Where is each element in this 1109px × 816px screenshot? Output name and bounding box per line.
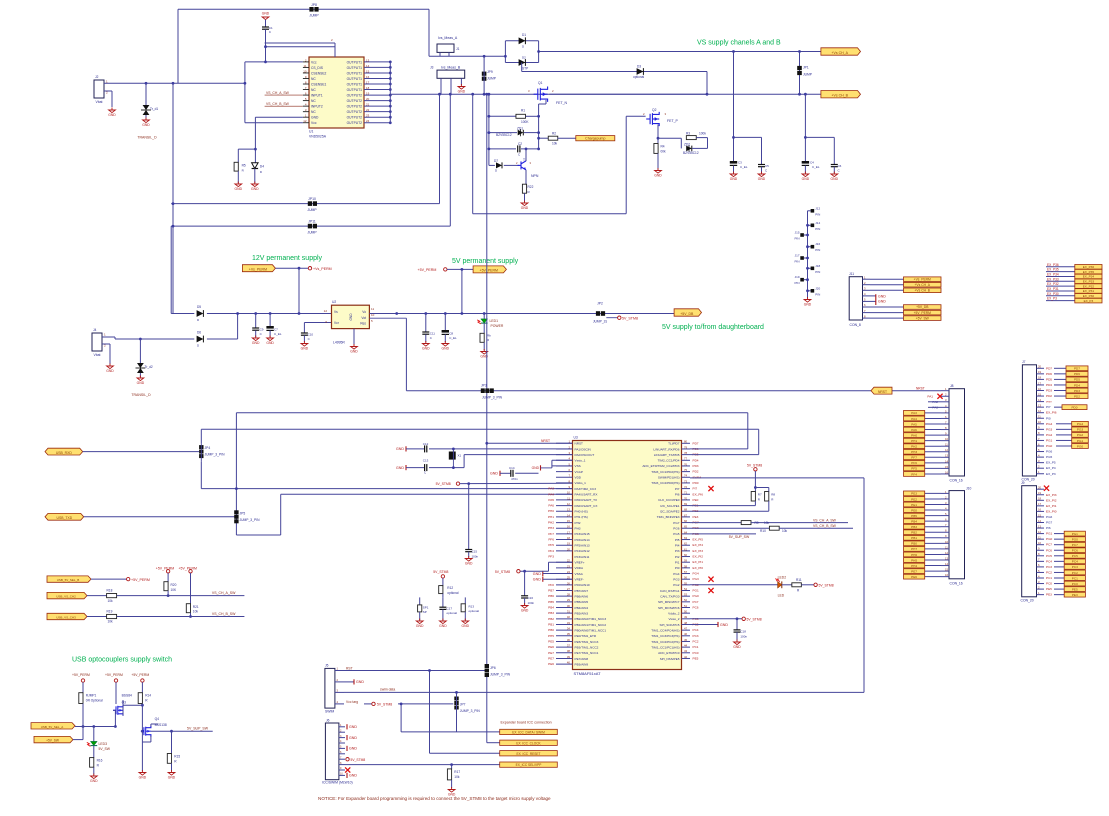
svg-text:EX_P30: EX_P30: [1083, 294, 1095, 298]
svg-text:PC3: PC3: [1046, 565, 1052, 569]
svg-text:EX_PI1: EX_PI1: [1046, 504, 1057, 508]
svg-text:OUTPUT1: OUTPUT1: [347, 82, 363, 86]
svg-text:48: 48: [684, 621, 688, 625]
svg-text:+5V_DB: +5V_DB: [680, 312, 694, 316]
svg-text:SPI_MISO/PC7: SPI_MISO/PC7: [658, 600, 680, 604]
svg-text:PIN: PIN: [815, 270, 820, 274]
svg-text:PB6/AIN6: PB6/AIN6: [575, 594, 589, 598]
svg-text:C14: C14: [509, 466, 515, 470]
svg-text:C10: C10: [308, 333, 314, 337]
svg-text:C18: C18: [740, 629, 746, 633]
svg-text:TLI/PD7: TLI/PD7: [668, 442, 680, 446]
svg-text:+Vs_PERM: +Vs_PERM: [249, 268, 267, 272]
svg-text:56: 56: [684, 576, 688, 580]
svg-text:VS_CH_A_SW: VS_CH_A_SW: [266, 91, 290, 95]
svg-text:GND: GND: [349, 736, 357, 740]
svg-text:NOTICE: For Expander board p: NOTICE: For Expander board programming i…: [318, 796, 551, 801]
svg-text:VS_CH_B_SW: VS_CH_B_SW: [266, 102, 290, 106]
svg-text:PE6: PE6: [911, 575, 917, 579]
svg-text:16: 16: [945, 573, 948, 577]
svg-text:PF7: PF7: [548, 532, 554, 536]
svg-text:+5V_PERM: +5V_PERM: [418, 268, 437, 272]
svg-text:12: 12: [567, 502, 571, 506]
svg-text:35: 35: [567, 632, 571, 636]
svg-text:PB2: PB2: [911, 531, 917, 535]
svg-text:C_EL: C_EL: [449, 336, 457, 340]
svg-text:+5V_PERM: +5V_PERM: [156, 567, 174, 571]
svg-text:GND: GND: [349, 313, 353, 321]
svg-text:PA4: PA4: [548, 492, 554, 496]
svg-text:CAN_RX/PG1: CAN_RX/PG1: [660, 589, 680, 593]
svg-text:PA5: PA5: [548, 498, 554, 502]
svg-text:23: 23: [366, 114, 370, 118]
svg-text:J18: J18: [815, 264, 820, 268]
svg-text:Ivs_Meas_A: Ivs_Meas_A: [438, 36, 458, 40]
svg-text:USB_VS_CH2: USB_VS_CH2: [56, 595, 76, 599]
svg-text:J10: J10: [966, 487, 971, 491]
svg-text:EX_P36: EX_P36: [1083, 265, 1095, 269]
svg-text:51: 51: [684, 604, 688, 608]
svg-text:D2: D2: [522, 56, 526, 60]
svg-text:PA1: PA1: [927, 394, 933, 398]
svg-text:PC2: PC2: [1072, 571, 1078, 575]
svg-text:5V_STM8: 5V_STM8: [747, 463, 762, 467]
svg-text:PB6: PB6: [548, 594, 554, 598]
svg-text:TIM3_CC2/PD0(HS): TIM3_CC2/PD0(HS): [651, 481, 679, 485]
svg-text:J15: J15: [795, 231, 800, 235]
svg-text:R17: R17: [454, 770, 460, 774]
svg-text:Vot: Vot: [361, 316, 366, 320]
svg-text:+5V_DB: +5V_DB: [916, 305, 929, 309]
svg-text:EX_P33: EX_P33: [1083, 279, 1095, 283]
svg-text:PC4: PC4: [693, 628, 699, 632]
svg-text:5V supply to/from daughterboar: 5V supply to/from daughterboard: [662, 324, 764, 331]
svg-text:J20: J20: [815, 286, 820, 290]
svg-text:Q1: Q1: [538, 81, 543, 85]
svg-text:RJMP1: RJMP1: [86, 693, 97, 697]
svg-text:PC2: PC2: [693, 639, 699, 643]
svg-text:PG1: PG1: [693, 589, 699, 593]
svg-text:EX_P3: EX_P3: [1046, 472, 1056, 476]
svg-text:PIN: PIN: [794, 281, 799, 285]
svg-text:PE1: PE1: [911, 503, 917, 507]
svg-text:PE0/TIM1_ETR: PE0/TIM1_ETR: [575, 634, 597, 638]
svg-text:JP2: JP2: [597, 302, 603, 306]
svg-text:JUMP_3_PIN: JUMP_3_PIN: [460, 709, 481, 713]
svg-text:PI6: PI6: [1046, 526, 1051, 530]
svg-text:10k: 10k: [108, 599, 114, 603]
svg-text:12: 12: [945, 551, 948, 555]
svg-text:R15: R15: [174, 755, 180, 759]
svg-text:PE5: PE5: [548, 639, 554, 643]
svg-text:USB_TXD: USB_TXD: [57, 516, 73, 520]
svg-text:78: 78: [684, 451, 688, 455]
svg-text:CON_8: CON_8: [850, 323, 861, 327]
svg-text:64: 64: [684, 530, 688, 534]
svg-text:C_EL: C_EL: [812, 165, 820, 169]
svg-text:GND: GND: [349, 774, 357, 778]
svg-text:20: 20: [567, 547, 571, 551]
svg-text:PB0: PB0: [911, 542, 917, 546]
svg-text:10: 10: [1038, 420, 1041, 424]
svg-text:PE0: PE0: [693, 498, 699, 502]
svg-text:GND: GND: [490, 472, 498, 476]
svg-text:+Vs CH_B: +Vs CH_B: [831, 94, 848, 98]
svg-text:57: 57: [684, 570, 688, 574]
svg-text:PC1: PC1: [1046, 576, 1052, 580]
svg-text:5V_SUP_SW: 5V_SUP_SW: [729, 535, 750, 539]
svg-text:GND: GND: [349, 747, 357, 751]
svg-text:10: 10: [303, 69, 307, 73]
svg-text:17: 17: [1038, 502, 1041, 506]
svg-text:29: 29: [567, 598, 571, 602]
svg-text:JP1: JP1: [803, 66, 809, 70]
svg-text:JP4: JP4: [205, 446, 211, 450]
svg-text:PA3: PA3: [911, 411, 917, 415]
svg-text:OUTPUT2: OUTPUT2: [347, 99, 363, 103]
svg-text:C8: C8: [449, 332, 453, 336]
svg-text:TIM1_CC1/PC1(HS): TIM1_CC1/PC1(HS): [651, 645, 679, 649]
svg-text:PE5: PE5: [693, 656, 699, 660]
svg-text:PF5: PF5: [911, 467, 917, 471]
svg-text:21: 21: [366, 103, 370, 107]
svg-text:JP3: JP3: [481, 384, 487, 388]
svg-text:J17: J17: [795, 254, 800, 258]
svg-text:PH3: PH3: [911, 450, 917, 454]
svg-text:VS_CH_B_SW: VS_CH_B_SW: [212, 612, 236, 616]
svg-text:EX_P4: EX_P4: [1046, 466, 1056, 470]
svg-text:VS_CH_A_SW: VS_CH_A_SW: [212, 591, 236, 595]
svg-text:PD2: PD2: [693, 470, 699, 474]
svg-text:PE7/TIM1_NCC1: PE7/TIM1_NCC1: [575, 651, 599, 655]
svg-text:PC0: PC0: [693, 651, 699, 655]
svg-text:11: 11: [303, 64, 306, 68]
svg-text:14: 14: [567, 513, 571, 517]
svg-text:16: 16: [366, 75, 370, 79]
svg-text:JP8: JP8: [311, 3, 317, 7]
svg-text:EX_PI6: EX_PI6: [1046, 411, 1057, 415]
svg-text:J1: J1: [456, 47, 460, 51]
svg-text:PB4: PB4: [548, 605, 554, 609]
svg-text:PIN: PIN: [794, 237, 799, 241]
svg-text:C4: C4: [810, 161, 814, 165]
svg-text:Expander board ICC connection: Expander board ICC connection: [501, 720, 552, 724]
svg-text:PG1: PG1: [1077, 439, 1083, 443]
svg-text:Vddio_1: Vddio_1: [575, 481, 587, 485]
svg-text:PE7/AIN8: PE7/AIN8: [575, 657, 589, 661]
svg-text:PD4: PD4: [693, 458, 699, 462]
svg-text:PI1: PI1: [675, 561, 680, 565]
svg-text:20: 20: [1038, 486, 1041, 490]
svg-text:37: 37: [567, 644, 571, 648]
svg-text:PH1 (HS): PH1 (HS): [575, 515, 588, 519]
svg-text:GND: GND: [654, 174, 662, 178]
svg-text:19: 19: [1038, 370, 1041, 374]
svg-text:43: 43: [684, 649, 688, 653]
svg-text:J11: J11: [849, 272, 854, 276]
svg-text:13: 13: [1038, 524, 1041, 528]
svg-text:FET_P: FET_P: [667, 119, 679, 123]
svg-text:15: 15: [945, 465, 948, 469]
svg-text:JP10: JP10: [308, 197, 316, 201]
svg-text:TIM2_CC1/PD4: TIM2_CC1/PD4: [658, 459, 680, 463]
svg-text:PE5: PE5: [1046, 587, 1052, 591]
svg-text:VDDA: VDDA: [575, 566, 585, 570]
svg-text:STP: STP: [522, 67, 528, 71]
svg-text:PI3: PI3: [675, 549, 680, 553]
svg-text:PG6: PG6: [1046, 450, 1052, 454]
svg-text:PG4: PG4: [693, 572, 699, 576]
svg-text:+5V_SW: +5V_SW: [916, 316, 930, 320]
svg-text:Chargepump: Chargepump: [585, 137, 605, 141]
svg-text:PB7/AIN7: PB7/AIN7: [575, 589, 589, 593]
svg-text:JUMP_3_PIN: JUMP_3_PIN: [482, 396, 503, 400]
svg-text:VS_CH_A_SW: VS_CH_A_SW: [813, 518, 837, 522]
svg-text:EX_P36: EX_P36: [1047, 263, 1059, 267]
svg-text:15: 15: [1038, 392, 1041, 396]
svg-text:PA6: PA6: [911, 428, 917, 432]
svg-text:J6: J6: [326, 719, 330, 723]
svg-text:EX_P31: EX_P31: [1047, 287, 1059, 291]
svg-text:100K: 100K: [521, 120, 529, 124]
svg-text:PC0: PC0: [1072, 582, 1078, 586]
svg-text:PIN: PIN: [815, 248, 820, 252]
svg-text:73: 73: [684, 479, 688, 483]
svg-text:EX_PI0: EX_PI0: [1046, 509, 1057, 513]
svg-text:PF0: PF0: [548, 583, 554, 587]
svg-text:CSENSE1: CSENSE1: [311, 82, 327, 86]
svg-text:22: 22: [366, 108, 370, 112]
svg-text:SP: SP: [423, 610, 427, 614]
svg-text:14: 14: [1038, 398, 1041, 402]
svg-text:PIN: PIN: [815, 227, 820, 231]
svg-text:SWIM: SWIM: [693, 475, 702, 479]
svg-text:D4: D4: [260, 164, 264, 168]
svg-text:10k: 10k: [782, 529, 788, 533]
svg-text:GND: GND: [108, 113, 116, 117]
svg-text:OUTPUT2: OUTPUT2: [347, 116, 363, 120]
svg-text:PI5: PI5: [675, 538, 680, 542]
svg-text:POWER: POWER: [491, 324, 504, 328]
svg-text:Vbat: Vbat: [96, 100, 103, 104]
svg-text:SPI_NSS/PE5: SPI_NSS/PE5: [660, 657, 680, 661]
svg-text:EX_PI2: EX_PI2: [693, 555, 704, 559]
svg-text:SP1: SP1: [423, 606, 429, 610]
svg-text:EX_P33: EX_P33: [1047, 277, 1059, 281]
svg-text:JUMP: JUMP: [307, 230, 317, 234]
svg-text:100n: 100n: [740, 634, 747, 638]
svg-text:53: 53: [684, 593, 688, 597]
svg-text:C2: C2: [518, 142, 522, 146]
svg-text:PH1: PH1: [548, 515, 554, 519]
svg-text:+Vs CH_A: +Vs CH_A: [915, 283, 931, 287]
svg-text:20: 20: [1038, 365, 1041, 369]
svg-text:J3: J3: [430, 66, 434, 70]
svg-text:VS supply chanels A and B: VS supply chanels A and B: [697, 40, 781, 47]
svg-text:C11: C11: [430, 332, 436, 336]
svg-text:PH3: PH3: [548, 526, 554, 530]
svg-text:EX_P32: EX_P32: [1083, 284, 1095, 288]
svg-text:JP6: JP6: [490, 666, 496, 670]
svg-text:PF4: PF4: [911, 472, 917, 476]
svg-text:PE3: PE3: [693, 515, 699, 519]
svg-text:13: 13: [945, 454, 948, 458]
svg-text:SWIM/PD1(HS): SWIM/PD1(HS): [658, 476, 680, 480]
svg-text:PG4: PG4: [673, 572, 679, 576]
svg-text:27: 27: [567, 587, 571, 591]
svg-text:EX_PI5: EX_PI5: [693, 538, 704, 542]
svg-text:NPN: NPN: [531, 174, 539, 178]
svg-text:PG0: PG0: [693, 594, 699, 598]
svg-text:PI0: PI0: [675, 566, 680, 570]
svg-text:X1: X1: [458, 454, 462, 458]
svg-text:Tr_d2: Tr_d2: [145, 365, 153, 369]
svg-text:JUMP: JUMP: [803, 73, 813, 77]
svg-text:Rb: Rb: [487, 334, 491, 338]
svg-text:34: 34: [567, 627, 571, 631]
svg-text:Vssio_2: Vssio_2: [668, 617, 679, 621]
svg-text:EX_P3: EX_P3: [1084, 299, 1094, 303]
svg-text:PI0: PI0: [1046, 416, 1051, 420]
svg-text:TIM1_CC4/PC4(HS): TIM1_CC4/PC4(HS): [651, 628, 679, 632]
svg-text:PH0 (HS): PH0 (HS): [575, 510, 588, 514]
svg-text:ZD2: ZD2: [684, 143, 690, 147]
svg-text:PC2: PC2: [1046, 570, 1052, 574]
svg-text:J19: J19: [795, 275, 800, 279]
svg-text:GND: GND: [465, 562, 473, 566]
svg-text:+5V_PERM: +5V_PERM: [480, 269, 498, 273]
svg-text:EX_P5: EX_P5: [1046, 461, 1056, 465]
svg-text:PI7: PI7: [675, 487, 680, 491]
svg-text:VSSA: VSSA: [575, 572, 584, 576]
svg-text:50: 50: [684, 610, 688, 614]
svg-text:PC7: PC7: [693, 600, 699, 604]
svg-text:PF4: PF4: [548, 549, 554, 553]
svg-text:JUMP: JUMP: [309, 14, 319, 18]
svg-text:PD7: PD7: [693, 441, 699, 445]
svg-text:GND: GND: [878, 300, 886, 304]
svg-text:GND: GND: [831, 177, 839, 181]
svg-text:PG0: PG0: [1046, 537, 1052, 541]
svg-text:PC4: PC4: [1046, 559, 1052, 563]
svg-text:PF6: PF6: [548, 538, 554, 542]
svg-text:GND: GND: [521, 206, 529, 210]
svg-text:GND: GND: [90, 779, 98, 783]
svg-text:EX_P34: EX_P34: [1047, 272, 1059, 276]
svg-text:PE6: PE6: [548, 645, 554, 649]
svg-text:19: 19: [366, 91, 370, 95]
svg-text:PD0: PD0: [693, 481, 699, 485]
svg-text:PC0: PC0: [1046, 582, 1052, 586]
svg-text:R19: R19: [107, 610, 113, 614]
svg-text:GND: GND: [521, 609, 529, 613]
svg-text:INPUT2: INPUT2: [311, 105, 323, 109]
svg-text:VSS: VSS: [575, 464, 581, 468]
svg-text:CLK_CCO/PE0: CLK_CCO/PE0: [658, 498, 680, 502]
svg-text:69: 69: [684, 502, 688, 506]
svg-text:Ivs_Meas_B: Ivs_Meas_B: [441, 66, 461, 70]
svg-text:PF3: PF3: [548, 555, 554, 559]
svg-text:Vbat: Vbat: [94, 353, 101, 357]
svg-text:OUTPUT1: OUTPUT1: [347, 71, 363, 75]
svg-text:PD3: PD3: [1074, 389, 1080, 393]
svg-text:OUTPUT2: OUTPUT2: [347, 93, 363, 97]
svg-text:15: 15: [945, 568, 948, 572]
svg-text:10k: 10k: [764, 521, 770, 525]
svg-text:54: 54: [684, 587, 688, 591]
svg-text:PH0: PH0: [548, 509, 554, 513]
svg-text:5V_SW: 5V_SW: [99, 747, 111, 751]
svg-text:39: 39: [567, 655, 571, 659]
svg-text:PD2: PD2: [1046, 394, 1052, 398]
svg-text:10k: 10k: [193, 610, 199, 614]
svg-text:PC5: PC5: [1072, 554, 1078, 558]
svg-text:NC: NC: [311, 99, 316, 103]
svg-text:100n: 100n: [472, 555, 479, 559]
svg-text:PH0: PH0: [911, 433, 917, 437]
svg-text:PA5: PA5: [911, 422, 917, 426]
svg-text:PA2/OSCOUT: PA2/OSCOUT: [575, 453, 595, 457]
svg-text:GND: GND: [462, 624, 470, 628]
svg-text:44: 44: [684, 644, 688, 648]
svg-text:PC1: PC1: [1072, 576, 1078, 580]
svg-text:C7: C7: [274, 328, 278, 332]
svg-text:J16: J16: [815, 242, 820, 246]
svg-text:5V_STM8: 5V_STM8: [433, 570, 448, 574]
svg-text:D6: D6: [197, 331, 201, 335]
svg-text:R22: R22: [528, 185, 534, 189]
svg-text:GND: GND: [106, 369, 114, 373]
svg-text:GND: GND: [139, 776, 147, 780]
svg-text:BSS84: BSS84: [122, 694, 132, 698]
svg-text:PG2: PG2: [673, 583, 679, 587]
svg-text:68: 68: [684, 508, 688, 512]
svg-text:STM8AF51xAT: STM8AF51xAT: [574, 671, 602, 676]
svg-text:16: 16: [1038, 508, 1041, 512]
svg-text:ZD1: ZD1: [517, 127, 523, 131]
svg-text:R20: R20: [171, 583, 177, 587]
svg-text:D1: D1: [522, 33, 526, 37]
svg-text:PB1: PB1: [548, 622, 554, 626]
svg-text:11: 11: [371, 307, 374, 311]
svg-text:46: 46: [684, 632, 688, 636]
svg-text:PH5: PH5: [911, 558, 917, 562]
svg-text:PG3: PG3: [673, 577, 679, 581]
svg-text:13: 13: [945, 556, 948, 560]
svg-text:70: 70: [684, 496, 688, 500]
svg-text:OUTPUT1: OUTPUT1: [347, 77, 363, 81]
svg-text:67: 67: [684, 513, 688, 517]
svg-text:CS_DIS: CS_DIS: [311, 66, 324, 70]
svg-text:40: 40: [567, 661, 571, 665]
svg-text:18: 18: [1038, 497, 1041, 501]
svg-text:EX_P35: EX_P35: [1047, 268, 1059, 272]
svg-text:LINUART_TX/PD5: LINUART_TX/PD5: [654, 453, 680, 457]
svg-text:PF7: PF7: [911, 456, 917, 460]
svg-text:PG7: PG7: [673, 521, 679, 525]
svg-text:PH2: PH2: [548, 521, 554, 525]
svg-text:PF0/AIN10: PF0/AIN10: [575, 583, 590, 587]
svg-text:PE3: PE3: [1072, 593, 1078, 597]
svg-text:PC6: PC6: [693, 605, 699, 609]
svg-text:18: 18: [366, 86, 370, 90]
svg-text:PF6: PF6: [911, 461, 917, 465]
svg-text:61: 61: [684, 547, 688, 551]
svg-text:PC1: PC1: [693, 645, 699, 649]
svg-text:PD5: PD5: [1074, 378, 1080, 382]
svg-text:CSENSE2: CSENSE2: [311, 71, 327, 75]
svg-text:12: 12: [303, 119, 307, 123]
